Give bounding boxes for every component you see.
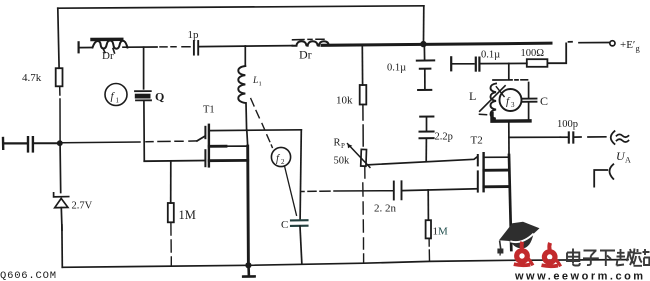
wire to 0.1u bbox=[452, 63, 474, 65]
wire input bbox=[4, 142, 27, 144]
glyph zhan bbox=[634, 249, 650, 266]
wire T2 source stub bbox=[484, 185, 509, 188]
wire to Dr1 bbox=[79, 47, 91, 49]
wire dashed L1 to f2 bbox=[251, 99, 272, 148]
wire input to junction bbox=[34, 142, 56, 144]
wire T1 source stub bbox=[209, 159, 248, 162]
zener diode 2.7V bbox=[54, 193, 69, 230]
svg-text:4.7k: 4.7k bbox=[22, 72, 42, 84]
wire bottom rail bbox=[62, 260, 628, 268]
logo cap board bbox=[499, 222, 540, 242]
svg-text:T2: T2 bbox=[471, 135, 483, 147]
wire L1 top lead bbox=[244, 46, 246, 66]
inductor L tank bbox=[491, 84, 497, 122]
glyph dian bbox=[567, 249, 580, 266]
terminal +Eg bbox=[610, 41, 615, 46]
wire top rail bbox=[58, 6, 424, 8]
svg-text:T1: T1 bbox=[203, 105, 215, 116]
glyph zai bbox=[617, 249, 635, 266]
svg-text:2.7V: 2.7V bbox=[72, 201, 93, 212]
wire W2 right bbox=[402, 189, 477, 191]
wire Rp to bottom dashed bbox=[363, 167, 365, 263]
svg-text:0.1µ: 0.1µ bbox=[481, 50, 500, 61]
capacitor 2.2p bbox=[420, 132, 434, 139]
wire crystal to source line bbox=[143, 101, 145, 161]
wire 0.1u to 100ohm bbox=[481, 62, 527, 64]
svg-text:100p: 100p bbox=[557, 119, 578, 130]
wire C to bottom bbox=[300, 226, 302, 262]
wire left rail bottom bbox=[61, 225, 63, 267]
wire tank top stub bbox=[508, 63, 510, 79]
wire V1 bold to bottom bbox=[246, 146, 250, 265]
wire 1M right bottom dashed bbox=[428, 239, 430, 262]
logo text dianzi xiazaizhan bbox=[567, 249, 650, 267]
svg-text:2. 2n: 2. 2n bbox=[374, 203, 397, 215]
node ground junction bbox=[245, 262, 251, 268]
svg-text:1M: 1M bbox=[433, 226, 449, 238]
svg-text:2: 2 bbox=[281, 158, 285, 166]
wire tank right lower bbox=[528, 102, 530, 121]
wire left rail mid bbox=[59, 86, 61, 140]
wire 1M right top lead bbox=[427, 190, 429, 220]
wire main rail bold bbox=[322, 43, 551, 45]
capacitor 1p bbox=[194, 41, 198, 55]
svg-text:1: 1 bbox=[116, 97, 120, 105]
resistor 10k bbox=[360, 85, 367, 105]
capacitor 2.2n bbox=[394, 181, 402, 199]
wire tank to T2 bbox=[508, 122, 510, 155]
node input junction bbox=[57, 140, 63, 146]
resistor 1M left bbox=[168, 161, 174, 266]
wire 2.2p top lead bbox=[426, 117, 428, 131]
inductor L1 bbox=[238, 66, 245, 103]
svg-text:L: L bbox=[469, 89, 476, 103]
svg-text:50k: 50k bbox=[334, 156, 351, 167]
wire dashed segment bbox=[160, 46, 190, 48]
capacitor 0.1u horizontal bbox=[476, 58, 480, 71]
wire 0.1u bottom lead bbox=[424, 69, 426, 89]
capacitor C tank bbox=[522, 99, 537, 102]
ground bbox=[243, 265, 254, 276]
wire T1 drain line bbox=[209, 129, 301, 132]
wire to +Eg terminal bbox=[579, 42, 609, 44]
transistor T2 bbox=[478, 153, 484, 191]
logo tassel bbox=[500, 241, 501, 249]
svg-text:2.2p: 2.2p bbox=[435, 132, 453, 143]
svg-text:R: R bbox=[334, 138, 341, 149]
logo eeworm bbox=[497, 222, 539, 256]
svg-text:3: 3 bbox=[511, 101, 515, 109]
wire Dr1 to dashes bbox=[123, 46, 157, 48]
svg-text:10k: 10k bbox=[336, 95, 353, 107]
wire tank top edge bbox=[493, 79, 528, 81]
oscillator symbol f1 bbox=[105, 84, 127, 106]
terminal 0.1u bottom bar bbox=[418, 89, 431, 91]
wire T2 middle stub bbox=[484, 169, 509, 172]
wire 10k to Rp bbox=[362, 105, 364, 147]
wire T2 drain stub bbox=[484, 156, 509, 158]
potentiometer Rp 50k bbox=[348, 144, 370, 168]
wire 0.1u vertical top lead bbox=[423, 47, 425, 60]
wire V1 mid bbox=[246, 130, 249, 146]
wire left rail lower bbox=[59, 146, 62, 193]
svg-text:+E′: +E′ bbox=[620, 39, 635, 51]
svg-text:C: C bbox=[540, 94, 548, 108]
arrow variable L bbox=[480, 86, 506, 115]
logo chongchong char1 bbox=[514, 242, 533, 266]
inductor Dr2 bbox=[293, 39, 333, 46]
wire 100p lead left plate bbox=[560, 136, 567, 138]
terminal 2.2p top bar bbox=[420, 116, 433, 118]
logo cap head bbox=[511, 234, 534, 248]
symbol AC tildes bbox=[617, 134, 629, 142]
wire 100ohm to rail bbox=[547, 43, 566, 63]
wire 1p to Dr2 bbox=[200, 46, 293, 47]
svg-text:P: P bbox=[341, 142, 345, 150]
transistor T1 bbox=[205, 125, 209, 167]
wire f2 to C diagonal bbox=[285, 166, 297, 215]
wire source line horizontal bbox=[144, 160, 205, 163]
terminal oscillator rail bbox=[77, 42, 79, 52]
wire L1 to drain bbox=[245, 103, 248, 130]
wire gate line dashed bbox=[63, 141, 198, 143]
wire T2 drain vertical bold bbox=[509, 155, 511, 250]
svg-text:www.eeworm.com: www.eeworm.com bbox=[514, 271, 646, 281]
svg-text:1M: 1M bbox=[179, 208, 196, 222]
svg-text:Q: Q bbox=[155, 90, 164, 104]
terminal output paren bbox=[611, 131, 615, 144]
terminal 0.1u horizontal left bbox=[450, 57, 452, 70]
wire W2 left bbox=[301, 190, 393, 193]
wire V2 drain to C bbox=[300, 130, 301, 220]
terminal input left bbox=[2, 138, 5, 149]
wire top-to-rail vertical bbox=[423, 6, 425, 41]
wire rail dash to +Eg bbox=[569, 41, 573, 43]
svg-text:Dr: Dr bbox=[102, 50, 114, 62]
resistor 100ohm bbox=[527, 59, 548, 67]
wire crystal branch vertical bbox=[143, 47, 145, 89]
oscillator symbol f3 bbox=[500, 89, 522, 111]
wire 2.2p bottom lead bbox=[425, 138, 427, 161]
wire left rail upper bbox=[58, 8, 59, 68]
capacitor C variable bbox=[291, 220, 308, 226]
logo cap highlight bbox=[510, 234, 533, 243]
svg-text:C: C bbox=[281, 219, 288, 231]
svg-text:1: 1 bbox=[259, 81, 262, 88]
wire 10k top lead bbox=[361, 45, 363, 85]
svg-text:1p: 1p bbox=[188, 29, 200, 41]
resistor 1M right bbox=[426, 220, 431, 238]
wire 100p line bbox=[509, 136, 560, 138]
wire gate diagonal bbox=[197, 136, 205, 141]
capacitor 0.1u vertical bbox=[417, 60, 434, 68]
svg-text:Dr: Dr bbox=[299, 48, 312, 62]
wire 100p to output bbox=[575, 136, 606, 138]
capacitor 100p bbox=[569, 132, 574, 142]
svg-text:L: L bbox=[252, 76, 258, 86]
svg-text:A: A bbox=[625, 156, 631, 165]
wire T1 middle stub bbox=[209, 145, 248, 148]
jack symbol lower bbox=[594, 164, 613, 186]
node main junction bbox=[420, 41, 426, 47]
wire tank bottom bold bbox=[492, 114, 530, 122]
glyph zi bbox=[583, 251, 599, 266]
oscillator symbol f2 bbox=[271, 147, 290, 166]
wire tank right side bbox=[528, 83, 530, 99]
crystal Q bbox=[135, 91, 151, 100]
logo chongchong char2 bbox=[542, 243, 561, 267]
wire W1 wiper line bbox=[368, 157, 478, 165]
resistor 4.7k bbox=[56, 68, 63, 86]
inductor Dr1 bbox=[92, 39, 127, 53]
svg-text:100Ω: 100Ω bbox=[521, 48, 545, 59]
glyph xia bbox=[600, 251, 615, 267]
svg-text:Q606.COM: Q606.COM bbox=[0, 270, 57, 281]
svg-text:0.1µ: 0.1µ bbox=[387, 63, 406, 74]
capacitor input coupling bbox=[28, 137, 33, 151]
